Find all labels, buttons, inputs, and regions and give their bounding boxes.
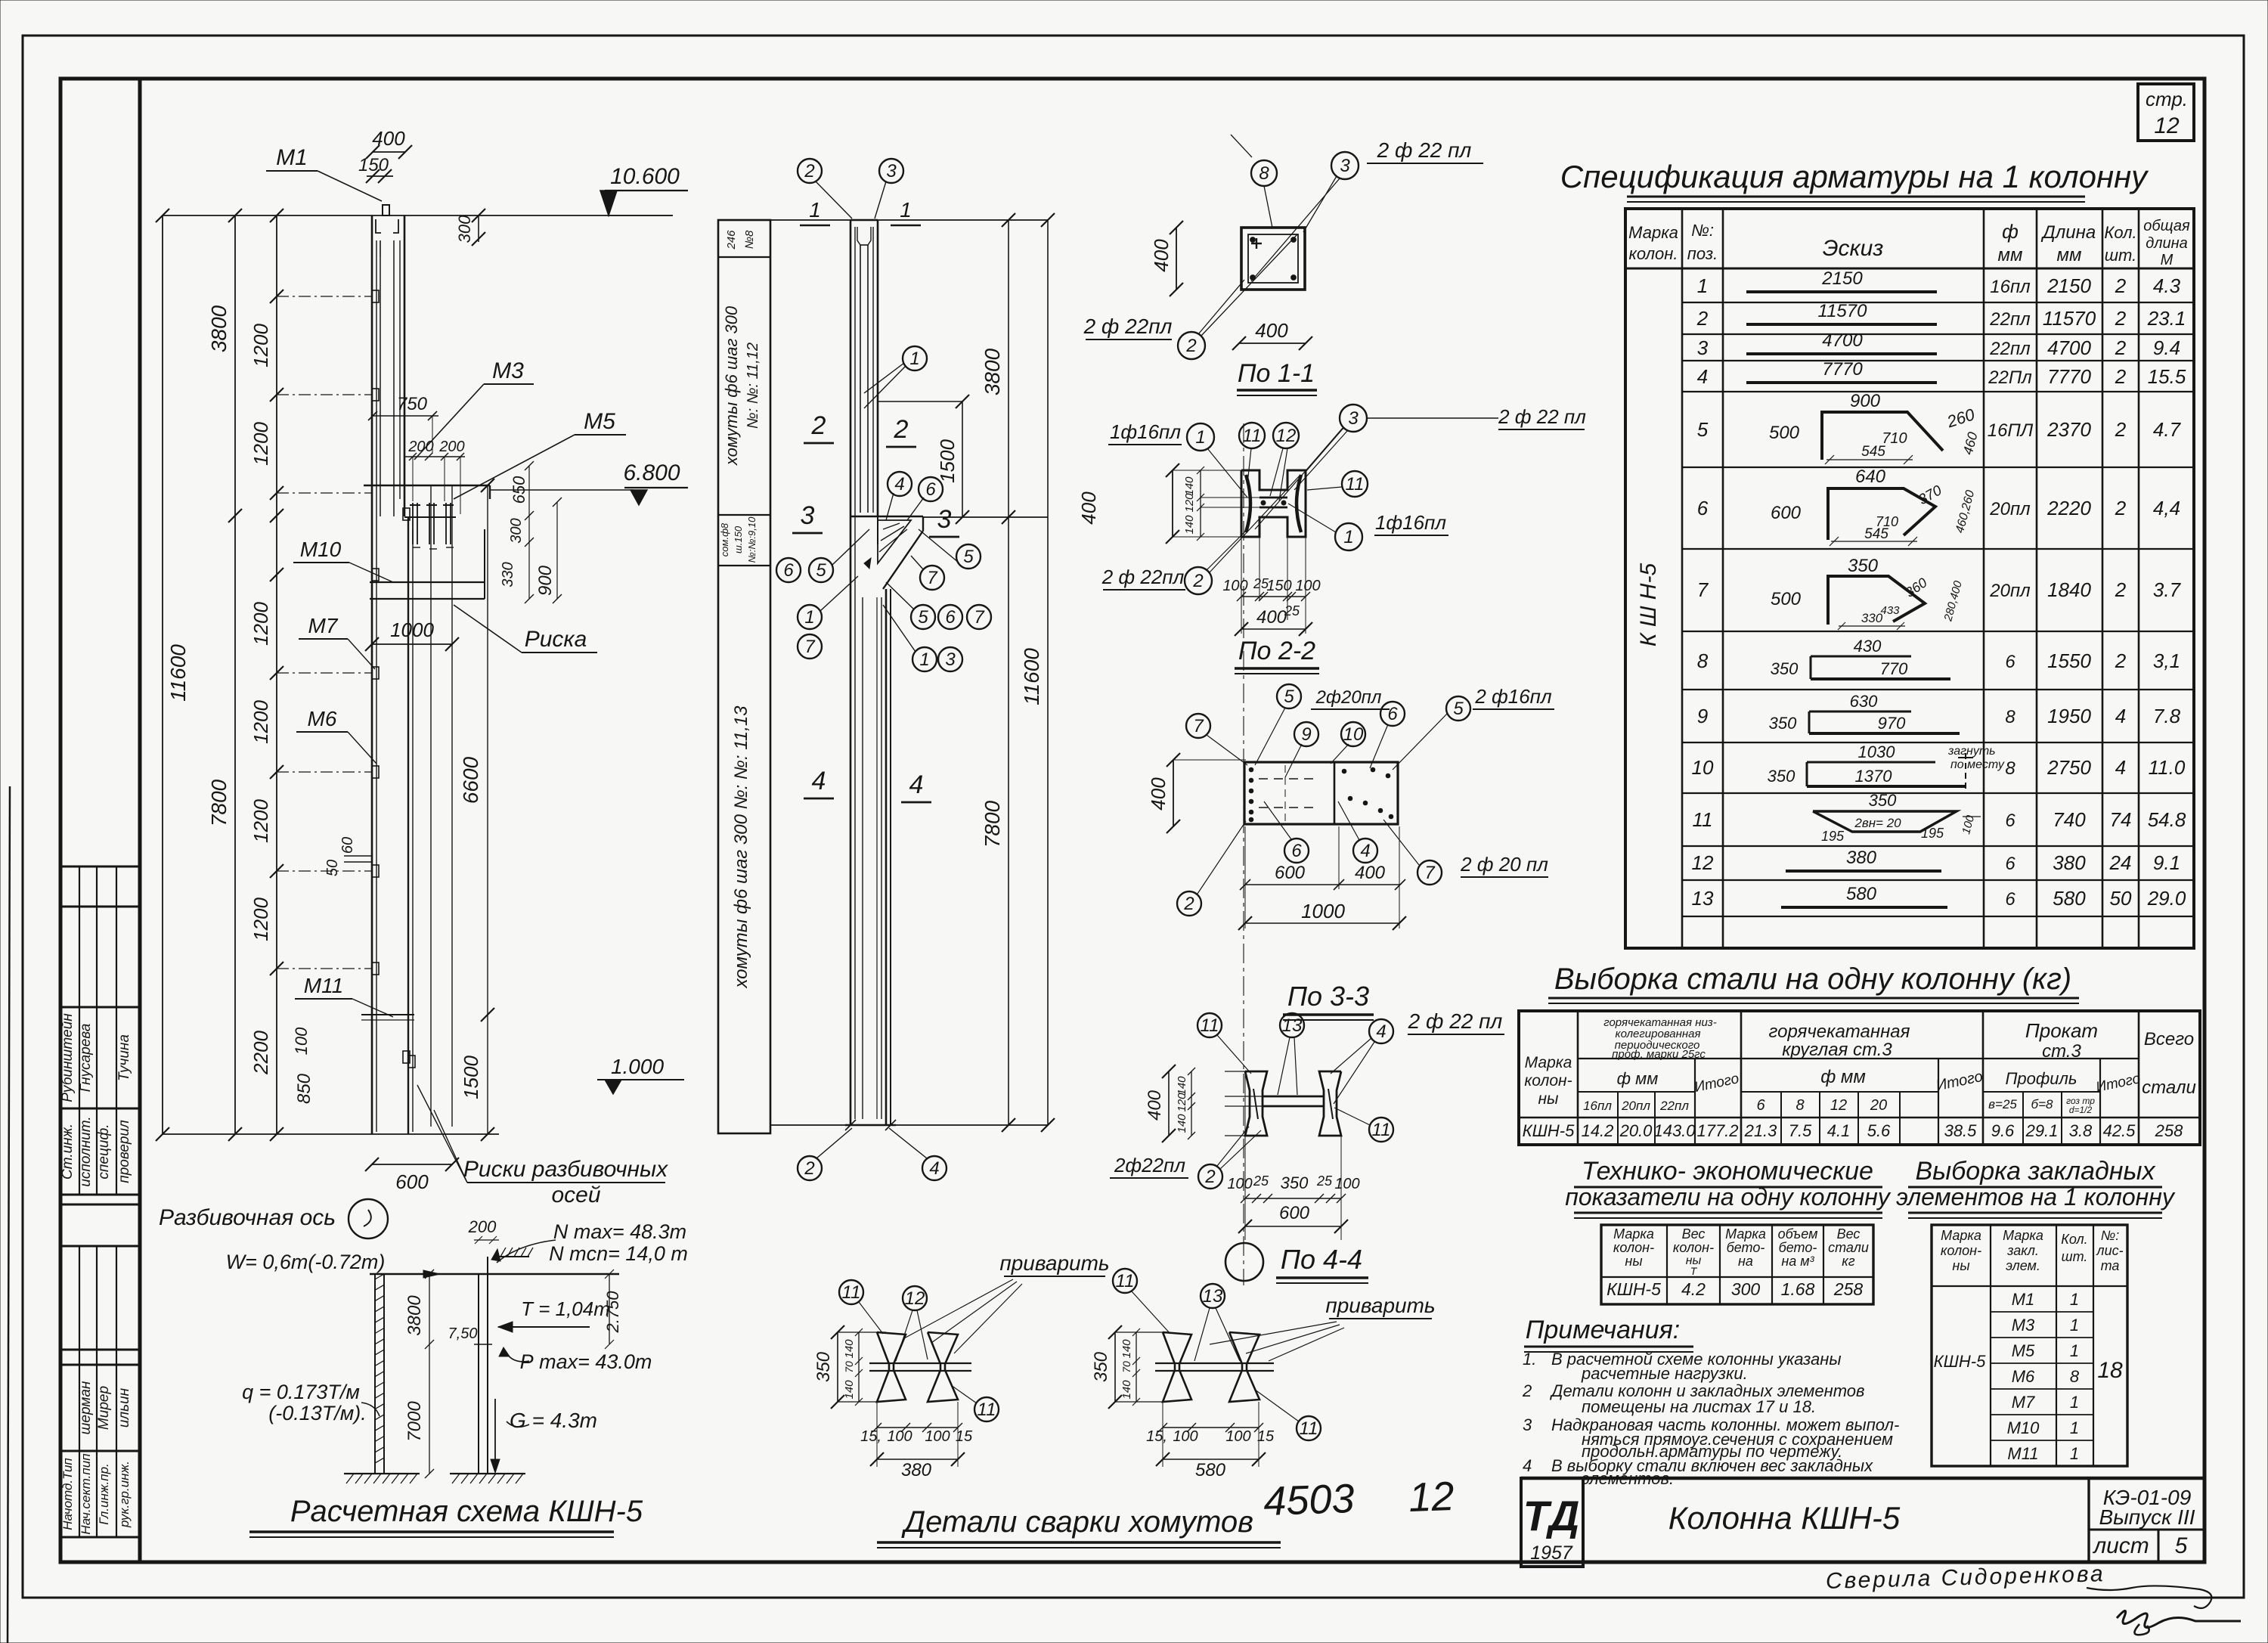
- weld detail 1 callouts: [839, 1280, 863, 1304]
- svg-text:4: 4: [894, 474, 904, 494]
- schema dim 3800 7000: [429, 1274, 430, 1474]
- svg-text:400: 400: [372, 127, 405, 150]
- svg-text:2: 2: [2115, 307, 2127, 330]
- callout 2 top: [798, 159, 822, 183]
- svg-text:круглая ст.3: круглая ст.3: [1782, 1040, 1892, 1060]
- svg-text:на м³: на м³: [1781, 1254, 1814, 1269]
- svg-text:7800: 7800: [981, 800, 1004, 848]
- svg-text:ильин: ильин: [116, 1387, 132, 1428]
- svg-text:2220: 2220: [2046, 497, 2091, 519]
- svg-text:400: 400: [1355, 863, 1386, 883]
- svg-text:4,4: 4,4: [2153, 497, 2180, 519]
- svg-text:2ф22пл: 2ф22пл: [1114, 1154, 1185, 1176]
- svg-text:21.3: 21.3: [1744, 1121, 1778, 1140]
- svg-text:Т = 1,04т: Т = 1,04т: [521, 1297, 610, 1320]
- svg-text:140: 140: [1176, 1114, 1188, 1133]
- svg-text:11.0: 11.0: [2149, 756, 2186, 779]
- svg-text:140: 140: [1120, 1380, 1133, 1400]
- risk axis thin verticals: [430, 485, 432, 1127]
- mark 50 60 bracket: [344, 855, 372, 857]
- svg-text:Риска: Риска: [525, 627, 587, 652]
- elevation dim chain 1200 steps: [276, 215, 277, 1134]
- svg-text:2: 2: [2115, 497, 2127, 519]
- svg-text:1950: 1950: [2047, 705, 2091, 727]
- svg-text:7: 7: [1424, 863, 1436, 883]
- section Po 3-3 rectangle: [1244, 762, 1398, 824]
- svg-text:11: 11: [1300, 1418, 1318, 1439]
- svg-text:5: 5: [963, 547, 974, 567]
- Po 2-2 callout 1 right: [1335, 523, 1362, 550]
- svg-text:По 1-1: По 1-1: [1238, 359, 1315, 388]
- svg-text:8: 8: [1259, 163, 1269, 184]
- svg-text:1000: 1000: [1301, 900, 1345, 922]
- svg-text:3: 3: [801, 501, 815, 530]
- svg-text:1500: 1500: [936, 439, 959, 483]
- anchor bolts M5: [412, 503, 414, 544]
- svg-text:433: 433: [1880, 604, 1900, 617]
- svg-text:1: 1: [2070, 1393, 2079, 1412]
- Po 3-3 callouts bottom: [1284, 839, 1309, 863]
- svg-text:1200: 1200: [249, 324, 272, 367]
- svg-text:11600: 11600: [1020, 648, 1043, 705]
- svg-text:2: 2: [2115, 365, 2127, 388]
- svg-text:100: 100: [1334, 1176, 1359, 1192]
- Po 1-1 callout 8: [1251, 160, 1277, 186]
- svg-text:630: 630: [1850, 692, 1878, 711]
- svg-text:29.0: 29.0: [2147, 887, 2186, 910]
- Po 4-4 axis circle: [1225, 1243, 1263, 1281]
- svg-text:400: 400: [1147, 777, 1170, 811]
- svg-text:1: 1: [2070, 1444, 2079, 1463]
- right side small dims 650 300 330 900: [528, 466, 530, 599]
- svg-text:рук.гр.инж.: рук.гр.инж.: [117, 1461, 132, 1528]
- top dim 400: [373, 151, 405, 153]
- svg-text:Выборка закладных: Выборка закладных: [1915, 1157, 2155, 1186]
- svg-text:7800: 7800: [207, 779, 231, 826]
- svg-text:18: 18: [2097, 1358, 2123, 1383]
- svg-text:2 ф 22 пл: 2 ф 22 пл: [1498, 405, 1586, 428]
- svg-text:22пл: 22пл: [1989, 309, 2031, 330]
- steel table itogo verticals: [1694, 1059, 1696, 1145]
- svg-text:15,: 15,: [860, 1428, 881, 1445]
- svg-text:Выпуск III: Выпуск III: [2099, 1505, 2195, 1529]
- svg-text:1ф16пл: 1ф16пл: [1110, 420, 1181, 443]
- bottom dim 600: [372, 1164, 452, 1165]
- svg-text:та: та: [2101, 1258, 2120, 1273]
- svg-text:7000: 7000: [404, 1401, 425, 1442]
- svg-text:140: 140: [1183, 476, 1196, 496]
- svg-text:38.5: 38.5: [1944, 1121, 1978, 1140]
- svg-text:Ст.инж.: Ст.инж.: [60, 1124, 76, 1180]
- svg-text:1550: 1550: [2047, 649, 2091, 672]
- svg-text:545: 545: [1861, 444, 1885, 460]
- svg-text:330: 330: [1861, 611, 1883, 625]
- svg-text:1200: 1200: [249, 799, 272, 843]
- svg-text:5.6: 5.6: [1867, 1121, 1891, 1140]
- svg-text:2: 2: [2115, 649, 2127, 672]
- schema W arrow: [423, 1270, 440, 1278]
- svg-text:8: 8: [1697, 649, 1709, 672]
- svg-text:колон-: колон-: [1524, 1072, 1572, 1090]
- console gusset hatch: [878, 520, 911, 563]
- svg-text:5: 5: [1284, 687, 1294, 707]
- svg-text:стр.: стр.: [2146, 88, 2188, 110]
- svg-text:9: 9: [1697, 705, 1708, 727]
- svg-text:элем.: элем.: [2006, 1258, 2040, 1273]
- svg-text:5: 5: [816, 560, 826, 581]
- schema dim 2750: [609, 1274, 610, 1344]
- spec table header bottom: [1625, 268, 2194, 270]
- svg-text:580: 580: [2053, 887, 2086, 910]
- svg-text:Марка: Марка: [1628, 223, 1678, 242]
- svg-text:№:: №:: [2101, 1228, 2120, 1243]
- svg-text:Примечания:: Примечания:: [1526, 1316, 1681, 1344]
- spec table frame: [1625, 209, 2194, 948]
- svg-text:Марка: Марка: [1525, 1054, 1572, 1071]
- svg-text:Разбивочная ось: Разбивочная ось: [159, 1205, 336, 1230]
- svg-text:8: 8: [2070, 1367, 2080, 1386]
- svg-text:Спецификация арматуры на 1 к: Спецификация арматуры на 1 колонну: [1560, 159, 2149, 194]
- svg-text:Технико- экономические: Технико- экономические: [1582, 1157, 1873, 1186]
- svg-text:шт.: шт.: [2062, 1249, 2088, 1264]
- svg-text:№: №: 11,12: №: №: 11,12: [745, 343, 761, 429]
- svg-text:150: 150: [358, 155, 389, 175]
- svg-text:74: 74: [2110, 808, 2132, 831]
- central axis line of sections: [1243, 423, 1244, 1285]
- callout 4 bottom: [922, 1156, 947, 1180]
- middle column lower shaft right edge: [885, 589, 888, 1125]
- list row: [2089, 1529, 2204, 1531]
- svg-text:1: 1: [2070, 1341, 2079, 1360]
- svg-text:проф. марки 25гс: проф. марки 25гс: [1612, 1048, 1706, 1061]
- svg-text:12: 12: [1276, 426, 1297, 446]
- svg-text:12: 12: [905, 1288, 925, 1309]
- svg-text:380: 380: [901, 1460, 932, 1480]
- svg-text:3,1: 3,1: [2153, 649, 2180, 672]
- middle column upper shaft: [850, 220, 852, 1125]
- svg-text:1840: 1840: [2047, 578, 2091, 601]
- svg-text:140: 140: [1120, 1339, 1133, 1359]
- svg-text:100: 100: [1222, 578, 1247, 594]
- svg-text:100: 100: [1225, 1428, 1250, 1445]
- svg-text:колон-: колон-: [1941, 1243, 1981, 1258]
- svg-text:24: 24: [2109, 851, 2132, 874]
- svg-text:2 ф 22 пл: 2 ф 22 пл: [1377, 138, 1472, 162]
- svg-text:2: 2: [811, 411, 826, 440]
- svg-text:хомуты ф6 шаг 300: хомуты ф6 шаг 300: [722, 305, 741, 466]
- svg-text:350: 350: [1771, 659, 1799, 678]
- Po 2-2 dims: [1241, 537, 1242, 634]
- svg-text:16пл: 16пл: [1583, 1099, 1612, 1113]
- svg-text:400: 400: [1255, 319, 1288, 342]
- svg-text:11: 11: [842, 1282, 861, 1303]
- svg-text:М3: М3: [492, 358, 524, 383]
- svg-text:4700: 4700: [2047, 336, 2091, 359]
- svg-text:1: 1: [919, 649, 929, 670]
- zaklad row lines: [1991, 1311, 2093, 1313]
- svg-text:2: 2: [2115, 274, 2127, 297]
- svg-text:объем: объем: [1778, 1226, 1818, 1242]
- svg-text:N mсn= 14,0 т: N mсn= 14,0 т: [549, 1242, 688, 1265]
- svg-text:длина: длина: [2146, 235, 2188, 252]
- svg-text:Прокат: Прокат: [2025, 1019, 2098, 1042]
- svg-text:140: 140: [843, 1380, 856, 1400]
- svg-text:ш.150: ш.150: [733, 525, 744, 553]
- elevation extension lines at 1200 ticks: [277, 296, 372, 297]
- svg-text:25: 25: [1316, 1173, 1333, 1189]
- spec table row lines: [1682, 302, 2194, 303]
- svg-text:М3: М3: [2012, 1316, 2035, 1335]
- svg-text:М10: М10: [300, 538, 342, 561]
- M11 plate dashes: [361, 1014, 414, 1015]
- svg-text:600: 600: [395, 1170, 429, 1193]
- svg-text:2: 2: [2115, 418, 2127, 441]
- svg-text:7: 7: [974, 607, 985, 628]
- svg-text:Рубинштейн: Рубинштейн: [60, 1013, 76, 1102]
- middle column console: [850, 516, 923, 518]
- svg-text:100: 100: [1173, 1428, 1198, 1445]
- svg-text:загнуть: загнуть: [1947, 745, 1996, 758]
- svg-text:6: 6: [945, 607, 956, 628]
- small arrow into column: [864, 558, 871, 569]
- svg-text:16пл: 16пл: [1990, 277, 2031, 297]
- svg-text:показатели на одну колонну: показатели на одну колонну: [1565, 1183, 1892, 1211]
- svg-text:2 ф 22 пл: 2 ф 22 пл: [1408, 1009, 1503, 1033]
- svg-text:4: 4: [1376, 1021, 1386, 1042]
- svg-text:№8: №8: [743, 230, 756, 249]
- svg-text:6: 6: [1291, 841, 1302, 861]
- svg-text:10: 10: [1343, 724, 1364, 745]
- svg-text:20пл: 20пл: [1989, 581, 2031, 601]
- svg-text:стали: стали: [2142, 1077, 2196, 1098]
- svg-text:100: 100: [887, 1428, 912, 1445]
- svg-text:42.5: 42.5: [2103, 1121, 2136, 1140]
- svg-text:750: 750: [397, 394, 428, 414]
- svg-text:25: 25: [1253, 1173, 1269, 1189]
- signature 2: [2117, 1610, 2241, 1627]
- svg-text:6: 6: [925, 479, 936, 500]
- svg-text:143.0: 143.0: [1653, 1121, 1696, 1140]
- svg-text:1: 1: [1697, 274, 1708, 297]
- svg-text:4: 4: [929, 1158, 939, 1179]
- svg-text:14.2: 14.2: [1582, 1121, 1614, 1140]
- svg-text:400: 400: [1077, 491, 1100, 525]
- svg-text:2 ф16пл: 2 ф16пл: [1474, 685, 1552, 708]
- svg-text:Эскиз: Эскиз: [1823, 236, 1884, 261]
- svg-text:4.3: 4.3: [2153, 274, 2181, 297]
- svg-text:(-0.13Т/м).: (-0.13Т/м).: [268, 1402, 367, 1424]
- svg-text:22Пл: 22Пл: [1988, 367, 2032, 388]
- svg-text:общая: общая: [2143, 218, 2190, 234]
- svg-text:650: 650: [510, 476, 528, 504]
- title block top line: [1521, 1477, 2204, 1480]
- svg-text:6: 6: [783, 560, 794, 581]
- svg-text:7: 7: [804, 637, 816, 657]
- svg-text:3: 3: [937, 505, 952, 534]
- svg-text:2ф20пл: 2ф20пл: [1315, 687, 1382, 708]
- schema fixed support hatching: [499, 1256, 529, 1257]
- svg-text:Т: Т: [1690, 1265, 1698, 1277]
- svg-text:300: 300: [508, 518, 525, 543]
- svg-text:120: 120: [1183, 493, 1196, 513]
- svg-text:1957: 1957: [1530, 1542, 1573, 1564]
- svg-text:ф мм: ф мм: [1617, 1069, 1659, 1088]
- scan edge artifact: [8, 786, 10, 1643]
- svg-text:d=1/2: d=1/2: [2069, 1105, 2093, 1115]
- svg-text:Риски разбивочных: Риски разбивочных: [463, 1157, 668, 1182]
- svg-text:400: 400: [1145, 1090, 1165, 1121]
- svg-text:7770: 7770: [1822, 359, 1863, 380]
- svg-text:12: 12: [1830, 1097, 1847, 1114]
- svg-text:740: 740: [2053, 808, 2086, 831]
- svg-text:70: 70: [1120, 1361, 1132, 1373]
- spec table verticals: [1681, 209, 1684, 948]
- left strip table block B: [60, 1204, 140, 1206]
- svg-text:580: 580: [1195, 1460, 1226, 1480]
- column cap detail M1: [383, 205, 389, 215]
- svg-text:колон.: колон.: [1628, 244, 1678, 263]
- steel table main verticals: [1577, 1011, 1579, 1145]
- svg-text:400: 400: [1256, 607, 1287, 628]
- weld detail 1 bow-ties: [877, 1332, 906, 1402]
- svg-text:13: 13: [1282, 1015, 1303, 1036]
- svg-text:2: 2: [894, 415, 909, 444]
- svg-text:4.1: 4.1: [1827, 1121, 1851, 1140]
- svg-text:М1: М1: [276, 145, 308, 170]
- svg-text:7: 7: [927, 568, 938, 588]
- svg-text:140: 140: [1183, 515, 1196, 535]
- section Po 4-4 I-beam: [1245, 1071, 1267, 1136]
- elevation dim chain 3800/7800: [234, 215, 236, 1134]
- svg-text:б=8: б=8: [2031, 1097, 2053, 1111]
- svg-text:1: 1: [1195, 427, 1205, 448]
- weld detail 2 callouts: [1113, 1269, 1137, 1293]
- svg-text:исполнит.: исполнит.: [78, 1116, 94, 1186]
- svg-text:3800: 3800: [207, 305, 231, 352]
- svg-text:2 ф 20 пл: 2 ф 20 пл: [1460, 853, 1548, 876]
- svg-text:1: 1: [900, 198, 912, 222]
- svg-text:300: 300: [1731, 1279, 1761, 1299]
- svg-text:КШН-5: КШН-5: [1523, 1121, 1575, 1140]
- svg-text:15,: 15,: [1146, 1428, 1167, 1445]
- svg-text:380: 380: [1846, 848, 1877, 868]
- svg-text:2750: 2750: [2046, 756, 2091, 779]
- svg-text:2: 2: [1522, 1381, 1532, 1400]
- svg-text:6: 6: [2005, 854, 2015, 874]
- svg-text:7: 7: [1697, 578, 1709, 601]
- svg-text:350: 350: [1768, 767, 1795, 786]
- middle dim 11600: [1047, 220, 1049, 1125]
- svg-text:Колонна КШН-5: Колонна КШН-5: [1668, 1500, 1901, 1536]
- svg-text:970: 970: [1878, 714, 1906, 733]
- svg-text:6: 6: [1387, 704, 1398, 724]
- left strip table block A: [60, 866, 140, 868]
- svg-text:Гл.инж.пр.: Гл.инж.пр.: [97, 1463, 111, 1525]
- svg-text:на: на: [1738, 1254, 1753, 1269]
- svg-text:Вес: Вес: [1682, 1226, 1706, 1242]
- svg-text:Длина: Длина: [2040, 222, 2096, 243]
- svg-text:2вн= 20: 2вн= 20: [1854, 816, 1901, 830]
- svg-text:350: 350: [1091, 1351, 1111, 1382]
- svg-text:11: 11: [1201, 1015, 1219, 1036]
- svg-text:5: 5: [2175, 1533, 2188, 1558]
- svg-text:1000: 1000: [390, 618, 434, 641]
- middle column inner core: [860, 245, 861, 513]
- svg-text:11: 11: [1243, 426, 1262, 446]
- dim 6600 and 1500 right of column: [487, 485, 488, 1134]
- svg-text:ны: ны: [1625, 1254, 1642, 1269]
- svg-text:11: 11: [1346, 474, 1365, 494]
- svg-text:4: 4: [1697, 365, 1708, 388]
- svg-text:1370: 1370: [1855, 767, 1893, 786]
- svg-text:3: 3: [886, 161, 897, 181]
- svg-text:М6: М6: [2012, 1367, 2035, 1386]
- svg-text:1: 1: [804, 607, 814, 628]
- svg-text:9.6: 9.6: [1991, 1121, 2015, 1140]
- svg-text:11: 11: [978, 1400, 996, 1420]
- svg-text:2200: 2200: [249, 1031, 272, 1075]
- svg-text:Расчетная схема КШН-5: Расчетная схема КШН-5: [290, 1495, 643, 1528]
- svg-text:Марка: Марка: [1725, 1226, 1766, 1242]
- svg-text:100: 100: [292, 1027, 311, 1055]
- svg-text:1.68: 1.68: [1781, 1279, 1815, 1299]
- svg-text:М11: М11: [304, 974, 343, 997]
- svg-text:380: 380: [2053, 851, 2086, 874]
- svg-text:1200: 1200: [249, 602, 272, 646]
- svg-text:3.7: 3.7: [2153, 578, 2182, 601]
- svg-text:140: 140: [843, 1339, 856, 1359]
- svg-text:100: 100: [925, 1428, 950, 1445]
- svg-text:G = 4.3т: G = 4.3т: [510, 1409, 597, 1432]
- svg-text:приварить: приварить: [1325, 1294, 1435, 1317]
- svg-text:Кол.: Кол.: [2104, 223, 2136, 242]
- svg-text:7: 7: [1193, 716, 1204, 736]
- svg-text:54.8: 54.8: [2148, 808, 2186, 831]
- svg-text:W= 0,6т(-0.72т): W= 0,6т(-0.72т): [226, 1251, 386, 1273]
- svg-text:15.5: 15.5: [2148, 365, 2186, 388]
- top dim 150: [367, 175, 393, 177]
- schema ground hatching: [344, 1473, 420, 1474]
- svg-text:Тучина: Тучина: [116, 1034, 132, 1081]
- svg-text:М: М: [2161, 252, 2173, 268]
- svg-text:расчетные нагрузки.: расчетные нагрузки.: [1581, 1364, 1748, 1383]
- svg-text:М7: М7: [308, 614, 339, 637]
- svg-text:3: 3: [1348, 408, 1359, 429]
- svg-text:ны: ны: [1538, 1090, 1559, 1108]
- svg-text:6600: 6600: [459, 756, 482, 804]
- svg-text:По 4-4: По 4-4: [1281, 1244, 1362, 1275]
- svg-text:710: 710: [1882, 430, 1907, 447]
- svg-text:60: 60: [339, 837, 356, 854]
- svg-text:специф.: специф.: [96, 1124, 112, 1179]
- svg-text:ТД: ТД: [1523, 1492, 1580, 1539]
- Po 4-4 dims: [1168, 1071, 1170, 1136]
- svg-text:10: 10: [1692, 756, 1714, 779]
- Po 1-1 dim 400 left: [1176, 228, 1177, 290]
- svg-text:1: 1: [1343, 527, 1353, 547]
- svg-text:7.8: 7.8: [2153, 705, 2181, 727]
- svg-text:850: 850: [294, 1073, 314, 1104]
- weld detail 2 bottom dims: [1163, 1427, 1259, 1428]
- spec sketch row 12: [1786, 870, 1941, 873]
- svg-text:2: 2: [804, 161, 814, 181]
- svg-text:закл.: закл.: [2006, 1243, 2039, 1258]
- page number box (стр 12): [2138, 84, 2194, 141]
- svg-text:1200: 1200: [249, 897, 272, 941]
- callout 1 upper: [903, 346, 927, 370]
- svg-text:12: 12: [1692, 851, 1714, 874]
- svg-text:осей: осей: [551, 1183, 600, 1207]
